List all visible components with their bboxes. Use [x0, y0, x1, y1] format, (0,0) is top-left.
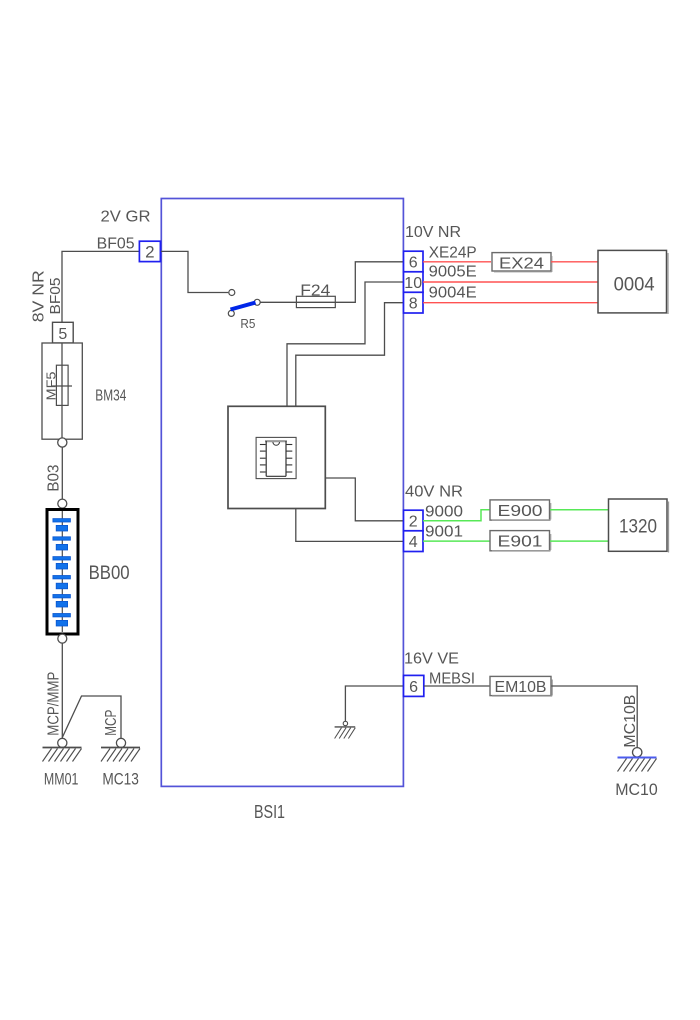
wire pin10 to IC module: [287, 282, 404, 406]
connector pin 4: [404, 531, 424, 552]
svg-text:BF05: BF05: [97, 235, 135, 252]
IC chip symbol: [256, 437, 296, 478]
header 10V NR: [405, 224, 461, 241]
connector pin 2 (left, BF05): [139, 241, 160, 261]
wire MCP/MMP: [61, 643, 63, 738]
wire EM10B to MC10: [552, 686, 638, 748]
label BSI1: [254, 802, 285, 822]
svg-text:MC13: MC13: [102, 769, 138, 788]
fuse BM34: [42, 343, 82, 439]
label BB00: [89, 563, 130, 584]
svg-text:9001: 9001: [425, 524, 463, 541]
wire label MEBSI: [429, 670, 475, 687]
svg-text:E900: E900: [498, 503, 543, 520]
net label MCP (vertical): [103, 710, 120, 736]
svg-text:MCP: MCP: [103, 710, 120, 736]
svg-text:6: 6: [409, 679, 418, 696]
svg-text:F24: F24: [300, 282, 330, 299]
svg-text:B03: B03: [46, 465, 63, 492]
svg-text:9000: 9000: [425, 503, 463, 520]
wire 9000 green: [423, 510, 489, 521]
svg-text:BM34: BM34: [95, 387, 126, 404]
wire E901 to 1320 green: [550, 540, 609, 542]
fuse F24: [296, 282, 335, 307]
svg-text:40V NR: 40V NR: [405, 484, 463, 501]
svg-text:MM01: MM01: [44, 769, 79, 788]
connector pin 8: [404, 292, 424, 313]
net label B03 (vertical): [46, 465, 63, 492]
ground MC10: [615, 748, 658, 799]
connector EX24: [492, 253, 552, 273]
header 40V NR: [405, 484, 463, 501]
header 16V VE: [404, 650, 459, 667]
switch R5: [228, 290, 260, 332]
connector pin 2 (40V): [404, 510, 424, 531]
wire pin2 to BM34: [62, 251, 139, 322]
svg-text:BSI1: BSI1: [254, 802, 285, 822]
connector E900: [490, 500, 551, 520]
wire IC module to pin4 (9001): [296, 509, 404, 542]
connector pin 10: [404, 272, 424, 293]
svg-text:MEBSI: MEBSI: [429, 670, 475, 687]
svg-text:2: 2: [145, 243, 154, 262]
svg-text:E901: E901: [498, 534, 543, 551]
connector E901: [490, 531, 551, 551]
net label BF05 (vertical): [47, 278, 64, 315]
net label 8V NR (vertical): [30, 270, 47, 322]
svg-text:8: 8: [409, 296, 418, 313]
net label MCP/MMP (vertical): [46, 672, 63, 736]
wire E900 to 1320 green: [550, 509, 609, 511]
svg-text:EM10B: EM10B: [495, 679, 547, 696]
IC module box: [228, 406, 325, 508]
wire XE24P red: [423, 261, 491, 263]
internal ground: [335, 721, 356, 738]
svg-text:6: 6: [409, 255, 418, 272]
battery BB00: [47, 510, 78, 635]
terminal circle below battery: [58, 634, 67, 643]
wire IC module to pin2 (9000): [325, 478, 403, 521]
svg-text:0004: 0004: [614, 275, 655, 296]
terminal circle above battery: [58, 499, 67, 508]
svg-text:9005E: 9005E: [429, 264, 477, 281]
wire label BF05: [97, 235, 135, 252]
svg-text:EX24: EX24: [499, 255, 544, 272]
terminal circle below BM34: [58, 438, 67, 447]
connector pin 6 (16V): [404, 675, 424, 696]
ground MM01: [43, 738, 82, 788]
wire B03: [61, 447, 63, 499]
svg-text:XE24P: XE24P: [429, 244, 477, 261]
component 1320: [609, 499, 669, 553]
svg-text:MF5: MF5: [44, 372, 59, 401]
svg-text:10: 10: [404, 275, 422, 292]
svg-text:2V GR: 2V GR: [101, 209, 151, 226]
net label 2V GR: [101, 209, 151, 226]
ground MC13: [101, 738, 140, 788]
wire 9005E red: [423, 281, 598, 283]
net label MC10B (vertical): [622, 695, 639, 748]
wire label 9000: [425, 503, 463, 520]
connector pin 6 (10V): [404, 251, 424, 272]
svg-text:MCP/MMP: MCP/MMP: [46, 672, 63, 736]
wire pin6 to EM10B: [424, 685, 490, 687]
fuse holder pin 5: [53, 322, 74, 343]
svg-text:10V NR: 10V NR: [405, 224, 461, 241]
fuse value MF5 (vertical): [44, 372, 59, 401]
label BM34: [95, 387, 126, 404]
svg-text:2: 2: [409, 514, 418, 531]
svg-text:1320: 1320: [619, 516, 657, 537]
svg-text:9004E: 9004E: [429, 285, 477, 302]
svg-text:R5: R5: [240, 316, 255, 331]
wire pin8 to IC module: [296, 303, 404, 407]
wire label 9001: [425, 524, 463, 541]
wire branch to MC13: [62, 696, 121, 738]
svg-text:BB00: BB00: [89, 563, 130, 584]
component 0004: [598, 250, 668, 314]
wire pin2 to switch R5: [161, 251, 228, 292]
svg-text:MC10: MC10: [615, 780, 658, 799]
wire label XE24P: [429, 244, 477, 261]
wire 9001 green: [423, 540, 490, 542]
svg-text:4: 4: [409, 534, 418, 551]
wire R5 to F24 to pin6 riser: [260, 262, 403, 303]
svg-text:MC10B: MC10B: [622, 695, 639, 748]
svg-text:8V NR: 8V NR: [30, 270, 47, 322]
svg-text:BF05: BF05: [47, 278, 64, 315]
wire 16V pin6 to internal ground: [345, 686, 403, 722]
wire label 9004E: [429, 285, 477, 302]
wire 9004E red: [423, 302, 598, 304]
connector EM10B: [490, 676, 552, 696]
wire label 9005E: [429, 264, 477, 281]
svg-text:16V VE: 16V VE: [404, 650, 459, 667]
ECU box BSI1: [161, 199, 403, 787]
wire EX24 to 0004 red: [551, 261, 598, 263]
svg-text:5: 5: [58, 326, 67, 343]
